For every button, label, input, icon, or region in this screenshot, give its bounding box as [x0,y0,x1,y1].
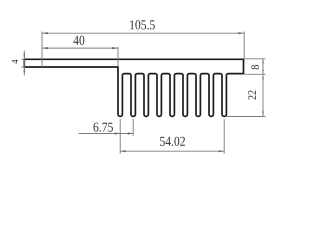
6.75 arrows [115,132,120,134]
dim 6.75 line [79,133,134,135]
dim 54.02 line [120,150,224,152]
extension line at x42 (left datum, crosses plate) [41,32,43,68]
heatsink profile outline [24,59,243,116]
dim 4 : vertical line + small extension overshoots [23,51,25,76]
dim text 4 [12,60,18,64]
dim text 40 [73,36,84,45]
4 arrows outside pointing inward [23,54,25,59]
dim text 8 [251,65,259,69]
105.5 arrows [42,32,48,34]
extension line at x117.4 (end of 40) [117,47,119,67]
54.02 arrows [120,150,126,152]
dims 8 and 22 on right: extensions [244,58,266,60]
arrowheads [23,32,263,152]
22 arrows [262,74,264,79]
8 arrows [262,59,264,64]
extension x119.9 (fin1 center) [119,119,121,154]
dimension line 105.5 [42,32,244,34]
dim text 105.5 [130,20,155,29]
extension line at x244 (right end) [243,32,245,60]
dim line vertical for 8 and 22 [262,59,264,117]
40 arrows [42,47,48,49]
extension x226.5 (fin9 center) [223,119,225,153]
dimension line 40 [42,47,118,49]
extension x133.2 (fin2 center) [132,119,134,136]
dim text 22 [248,90,256,99]
dim text 54.02 [160,137,185,146]
dim text 6.75 [94,123,113,132]
